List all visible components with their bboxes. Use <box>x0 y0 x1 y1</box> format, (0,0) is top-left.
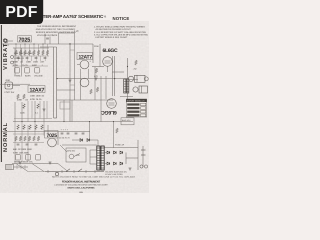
wire tone stack tall cap left <box>53 47 55 118</box>
svg-text:+ + + +: + + + + <box>61 129 69 132</box>
wire pt top feed <box>62 144 97 146</box>
wire normal drop a <box>47 125 49 138</box>
diode D1 <box>80 139 83 142</box>
wire top bus <box>2 43 93 45</box>
svg-text:68K .02 100K 1500: 68K .02 100K 1500 <box>13 148 33 151</box>
wire riser to loop b <box>49 37 51 45</box>
tube V4 6L6GC envelope <box>103 57 113 67</box>
svg-text:220K: 220K <box>17 99 23 102</box>
potentiometer VR3 <box>35 68 40 74</box>
svg-text:12AX7: 12AX7 <box>30 88 45 94</box>
wire 12AX7 drop b <box>43 101 45 122</box>
wire loop rung a <box>70 49 75 51</box>
tube V2 12AX7 label box <box>28 86 45 93</box>
wire left mid tie <box>14 118 52 120</box>
notes paragraph (left) <box>36 25 77 37</box>
wire left riser c <box>39 101 41 119</box>
voltage chart row 4 cell <box>141 114 146 117</box>
rectifier diode D7 <box>114 162 117 165</box>
wire resistor bottom tie <box>13 55 49 57</box>
svg-text:AS SHOWN ON CHASSIS LAYOUT: AS SHOWN ON CHASSIS LAYOUT <box>96 28 132 31</box>
speaker SP2 frame <box>139 86 148 93</box>
wire left drop a <box>14 102 16 122</box>
diagonal chassis wire b <box>32 164 44 172</box>
wire cap bank riser <box>89 122 91 140</box>
wire tone stack tall cap right <box>56 47 58 118</box>
capacitor C2 <box>26 58 29 59</box>
wire loop top <box>59 32 75 34</box>
speaker SP1 frame <box>135 75 146 82</box>
svg-text:FOOT SW: FOOT SW <box>5 91 15 94</box>
resistor R14 plate <box>96 87 99 92</box>
ground switch contact <box>74 154 80 157</box>
potentiometer VR1 <box>15 68 20 74</box>
wire footswitch stub <box>13 85 21 87</box>
svg-text:VOLTAGE RATINGS: VOLTAGE RATINGS <box>37 34 58 37</box>
heater winding block <box>6 165 14 170</box>
resistor R8 <box>46 50 49 55</box>
resistor R10 <box>23 94 26 99</box>
voltage chart row 1 label <box>127 103 139 105</box>
svg-text:2. ALL RESISTORS 1/2 WATT 10%: 2. ALL RESISTORS 1/2 WATT 10% UNLESS NOT… <box>94 31 147 34</box>
wire second drop <box>21 48 23 75</box>
svg-text:SERVICE MOUNTING ADAPTORS AN: SERVICE MOUNTING ADAPTORS AND <box>36 31 76 34</box>
ac plug prong a <box>141 149 146 151</box>
tube V6 7025 label box <box>45 131 59 139</box>
potentiometer VR6 <box>36 155 41 161</box>
voltage chart row 3 cell <box>141 110 146 113</box>
pt stub a <box>90 149 97 151</box>
svg-text:6800: 6800 <box>32 64 38 67</box>
ground switch box <box>66 148 86 162</box>
voltage chart header <box>126 99 146 102</box>
svg-text:100K 1500 .02: 100K 1500 .02 <box>30 95 45 98</box>
svg-text:BASS: BASS <box>25 75 31 78</box>
diode D2 <box>87 139 90 142</box>
normal bank tie <box>13 133 44 135</box>
speaker SP1 coil line <box>136 75 138 82</box>
tube V3b second triode envelope <box>80 78 89 87</box>
voltage chart row 2 label <box>127 107 139 109</box>
tube V5 6L6GC envelope <box>107 99 117 109</box>
wire stub a <box>16 44 48 56</box>
svg-text:6L6GC: 6L6GC <box>101 109 117 115</box>
speaker SP2 coil line <box>140 86 142 93</box>
svg-text:12AT7: 12AT7 <box>79 55 93 61</box>
rectifier diode D5 <box>120 151 123 154</box>
svg-text:GRD SW: GRD SW <box>67 149 75 152</box>
wire tall cap bottom tie <box>54 117 57 119</box>
svg-text:1500: 1500 <box>33 61 39 64</box>
wire lower 6L6 feed a <box>100 76 102 99</box>
wire diode out <box>90 139 98 141</box>
capacitor C3 <box>35 58 38 59</box>
svg-text:A DIVISION OF COLUMBIA RECORDS: A DIVISION OF COLUMBIA RECORDS DISTRIBUT… <box>54 184 108 187</box>
wire loop rung b <box>70 84 75 86</box>
wire lower mid <box>57 99 113 101</box>
voltage chart row 4 label <box>127 114 139 116</box>
heater tick marks <box>17 165 25 169</box>
svg-text:470K .047 250K: 470K .047 250K <box>13 152 29 155</box>
bias board box <box>121 118 134 125</box>
speaker SP1 plug <box>144 77 148 81</box>
footswitch jack <box>5 82 13 89</box>
tube V3 12AT7 envelope <box>80 60 89 69</box>
page background <box>0 0 149 198</box>
scan grain texture <box>0 21 149 193</box>
wire bottom panel row <box>45 171 104 173</box>
resistor R3 <box>24 50 27 55</box>
ground switch rotor <box>69 154 74 159</box>
title rule <box>43 20 110 22</box>
wire triode a drop <box>80 69 82 100</box>
svg-text:BIAS ADJ: BIAS ADJ <box>122 119 130 122</box>
wire left riser b <box>31 101 33 119</box>
wire rectifier out <box>126 157 138 159</box>
svg-text:470K 25-25: 470K 25-25 <box>30 98 42 101</box>
svg-text:FUSE 2A: FUSE 2A <box>115 144 125 147</box>
svg-text:250K: 250K <box>13 61 19 64</box>
output transformer secondary <box>127 79 129 93</box>
normal channel caps <box>17 144 38 145</box>
svg-text:EXPORT MODEL CH: EXPORT MODEL CH <box>127 99 145 102</box>
resistor R11 screen <box>95 68 98 73</box>
wire push-pull pair a <box>112 56 114 96</box>
wire resistor bank tie <box>13 47 49 49</box>
svg-text:100K: 100K <box>26 61 32 64</box>
wire tone top tie <box>40 46 57 48</box>
svg-text:7025: 7025 <box>19 37 31 43</box>
ground symbol G2 <box>95 78 98 80</box>
wire lower 6L6 feed b <box>105 76 107 99</box>
power switch <box>66 169 70 172</box>
speaker jack SP1 sleeve <box>128 76 133 81</box>
resistor R7 <box>42 50 45 55</box>
wire 6L6 cathode <box>107 66 109 72</box>
resistor R13 tail <box>90 89 93 94</box>
wire input drop <box>14 48 16 75</box>
resistor R12 top right <box>135 60 138 65</box>
wire B+ rail vertical <box>127 58 129 100</box>
wire ground return <box>0 83 30 85</box>
wire diode row 2 <box>104 163 107 165</box>
filter capacitor C21 <box>67 133 70 134</box>
wire lead stubs lower <box>18 56 45 61</box>
svg-text:3. ALL CAPACITOR VALUES IN MFD: 3. ALL CAPACITOR VALUES IN MFD UNLESS NO… <box>94 34 149 37</box>
vibrato input jack stub <box>8 40 13 42</box>
ac plug cap b <box>144 165 147 168</box>
power transformer hatch <box>97 148 104 168</box>
svg-text:1. ROUTE SHIELD WIRE AWAY FROM: 1. ROUTE SHIELD WIRE AWAY FROM AC WIRING <box>94 25 145 28</box>
svg-text:NOTES VOLTAGES READ TO GND: NOTES VOLTAGES READ TO GND VOL CONT MAX … <box>52 176 136 179</box>
voltage chart row 1 cell <box>141 103 146 106</box>
wire pots bus <box>12 65 48 67</box>
wire 12AX7 drop a <box>34 101 36 122</box>
voltage chart row 3 label <box>127 111 139 113</box>
wire bottom long bus <box>13 121 133 123</box>
filter capacitor C20 <box>61 133 64 134</box>
tube V3 12AT7 label box <box>77 53 93 60</box>
wire ac line vertical b <box>142 146 144 167</box>
svg-text:⅓: ⅓ <box>104 14 107 18</box>
svg-text:THE FENDER MUSICAL INSTRUMENT: THE FENDER MUSICAL INSTRUMENT <box>37 25 77 28</box>
filter capacitor C22 <box>75 133 78 134</box>
svg-text:TREBLE BASS VOL: TREBLE BASS VOL <box>14 161 34 164</box>
normal bank lower tie <box>13 142 44 144</box>
wire plate line <box>92 66 104 68</box>
PDF badge <box>0 0 43 24</box>
svg-text:VIBRATO: VIBRATO <box>3 37 9 70</box>
svg-text:20 20 70 70: 20 20 70 70 <box>59 137 70 140</box>
wire normal verticals <box>15 122 44 164</box>
wire rectifier mid <box>125 153 127 165</box>
input jack J2 <box>11 61 14 64</box>
node dot mid bus <box>56 78 57 79</box>
resistor R4 <box>28 50 31 55</box>
wire supply down <box>97 140 99 146</box>
ground symbol G1 <box>69 80 72 82</box>
filter capacitor C23 <box>82 133 85 134</box>
svg-text:100K 220K 100K 56K: 100K 220K 100K 56K <box>14 52 34 55</box>
vibrato input jack <box>4 39 8 43</box>
notice numbered list (right) <box>94 25 149 39</box>
wire speaker lower feed <box>120 96 133 98</box>
wire cap bank bus <box>58 131 90 133</box>
diagonal chassis wire a <box>16 164 28 172</box>
pilot lamp <box>55 172 58 175</box>
wire pi tail <box>94 67 96 101</box>
voltage chart table frame <box>126 99 146 117</box>
wire lower 6L6 drop <box>100 99 102 122</box>
wire ac line vertical a <box>137 140 139 170</box>
wire left drop b <box>21 102 23 122</box>
bus junction dots <box>15 43 43 44</box>
wire loop vertical <box>74 33 76 100</box>
resistor R5 <box>33 50 36 55</box>
power transformer primary winding <box>97 146 100 170</box>
rectifier diode D4 <box>114 151 117 154</box>
tube V1 7025 label box <box>18 36 32 42</box>
wire standby feed <box>72 139 80 141</box>
ground symbol G6 <box>129 168 132 170</box>
resistor R20 <box>23 104 26 109</box>
resistor R9 <box>17 94 20 99</box>
svg-text:NOTICE: NOTICE <box>113 16 130 21</box>
svg-text:PDF: PDF <box>5 4 37 21</box>
output transformer primary <box>124 79 126 93</box>
potentiometer VR5 <box>26 155 31 161</box>
footswitch jack pin <box>7 84 10 87</box>
capacitor C4 <box>44 58 47 59</box>
oscillator box <box>60 102 70 109</box>
wire panel extension <box>28 171 45 173</box>
wire chassis diagonal b <box>60 145 67 152</box>
svg-text:TREBLE: TREBLE <box>14 75 23 78</box>
tube V4 grid bars <box>105 61 111 63</box>
svg-text:117VAC LINE CORD: 117VAC LINE CORD <box>105 173 123 176</box>
tube V3 grid pin <box>77 64 80 66</box>
potentiometer VR4 <box>16 155 21 161</box>
svg-text:6L6GC: 6L6GC <box>103 48 119 54</box>
svg-text:1964: 1964 <box>79 191 83 194</box>
heater winding hatch <box>7 165 11 170</box>
wire push-pull pair b <box>114 56 116 96</box>
pt stub b <box>90 156 97 158</box>
wire feedback vertical <box>69 44 71 122</box>
ground symbol G4 <box>19 162 22 164</box>
svg-text:VOLUME: VOLUME <box>34 75 43 78</box>
tube V6 7025 envelope <box>48 138 57 147</box>
wire to phase inverter <box>92 44 94 63</box>
wire heater feed <box>14 166 29 168</box>
svg-text:2Ω: 2Ω <box>134 68 137 71</box>
svg-text:470K: 470K <box>13 64 19 67</box>
input jack J1 <box>11 56 14 59</box>
svg-text:NORMAL: NORMAL <box>3 122 9 152</box>
capacitor C1 <box>17 58 20 59</box>
wire triode b drop <box>88 69 90 78</box>
power transformer secondary winding <box>101 146 104 170</box>
wire loop left drop <box>58 33 60 44</box>
bottom bus junction dots <box>21 121 114 122</box>
svg-text:25-25: 25-25 <box>22 64 28 67</box>
resistor R6 <box>37 50 40 55</box>
normal channel resistor bank <box>15 136 40 141</box>
node dot pp <box>114 78 115 79</box>
resistor R2 <box>19 50 22 55</box>
ac plug prong b <box>141 154 146 156</box>
ground symbol G5 <box>49 162 52 164</box>
rectifier diode D6 <box>107 162 110 165</box>
wire mid horizontal <box>57 89 75 91</box>
svg-text:⌊-C: ⌊-C <box>75 29 79 33</box>
rectifier diode D8 <box>120 162 123 165</box>
wire bias vertical <box>113 122 115 148</box>
wire screen line <box>112 71 124 73</box>
wire normal bus <box>2 131 58 133</box>
node junction on top bus <box>69 43 70 44</box>
svg-text:220K: 220K <box>94 45 99 48</box>
wire left riser <box>27 101 29 122</box>
wire driver vertical <box>99 44 101 67</box>
wire chassis diagonal a <box>58 164 68 172</box>
output transformer hatch <box>124 82 129 92</box>
svg-text:SANTA ANA, CALIFORNIA: SANTA ANA, CALIFORNIA <box>67 187 95 190</box>
speaker jack SP2 sleeve <box>133 87 138 92</box>
wire right of tremolo <box>71 100 73 122</box>
svg-text:220K: 220K <box>20 112 25 115</box>
wire tremolo vertical <box>63 100 65 122</box>
wire rectifier top <box>104 147 138 149</box>
wire normal drop b <box>57 132 59 145</box>
wire speaker feed <box>129 79 138 81</box>
standby switch <box>78 169 82 172</box>
wire riser to loop a <box>44 34 46 45</box>
schematic left border <box>0 25 2 162</box>
pt stub riser <box>89 150 91 164</box>
wire normal lower tie <box>12 163 58 165</box>
svg-text:.02 500 .02: .02 500 .02 <box>14 57 25 60</box>
pt stub c <box>90 163 97 165</box>
resistor R21 <box>37 104 40 109</box>
tube V5 grid bars <box>109 103 115 105</box>
wire mid bus <box>57 78 128 80</box>
node dot B+ <box>127 66 128 67</box>
resistor R30 bias <box>116 128 119 133</box>
wire diode row 1 <box>104 152 107 154</box>
wire left riser d <box>46 101 48 119</box>
rectifier diode D3 <box>107 151 110 154</box>
ground symbol G3 <box>43 109 46 111</box>
svg-text:GRD: GRD <box>6 79 11 82</box>
resistor R1 <box>15 50 18 55</box>
ac plug cap a <box>140 165 143 168</box>
svg-text:FENDER MUSICAL INSTRUMENT: FENDER MUSICAL INSTRUMENT <box>62 180 101 183</box>
normal channel resistor bank upper <box>17 125 44 130</box>
voltage chart row 2 cell <box>141 107 146 110</box>
potentiometer VR2 <box>25 68 30 74</box>
svg-text:AND VOLTAGES OF THE FOLLOWING: AND VOLTAGES OF THE FOLLOWING <box>36 28 75 31</box>
capacitor C5 top <box>46 38 49 39</box>
svg-text:EXPORT MODELS SEE CHART: EXPORT MODELS SEE CHART <box>96 36 129 39</box>
panel tick marks <box>48 170 95 173</box>
